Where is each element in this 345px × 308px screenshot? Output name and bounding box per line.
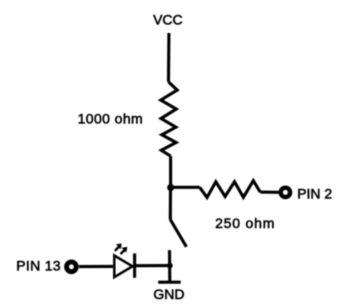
- svg-text:250 ohm: 250 ohm: [215, 215, 275, 231]
- svg-text:VCC: VCC: [153, 11, 183, 27]
- svg-text:GND: GND: [153, 286, 184, 302]
- svg-text:1000 ohm: 1000 ohm: [78, 110, 143, 126]
- svg-text:PIN 2: PIN 2: [297, 185, 332, 201]
- svg-text:PIN 13: PIN 13: [16, 258, 61, 274]
